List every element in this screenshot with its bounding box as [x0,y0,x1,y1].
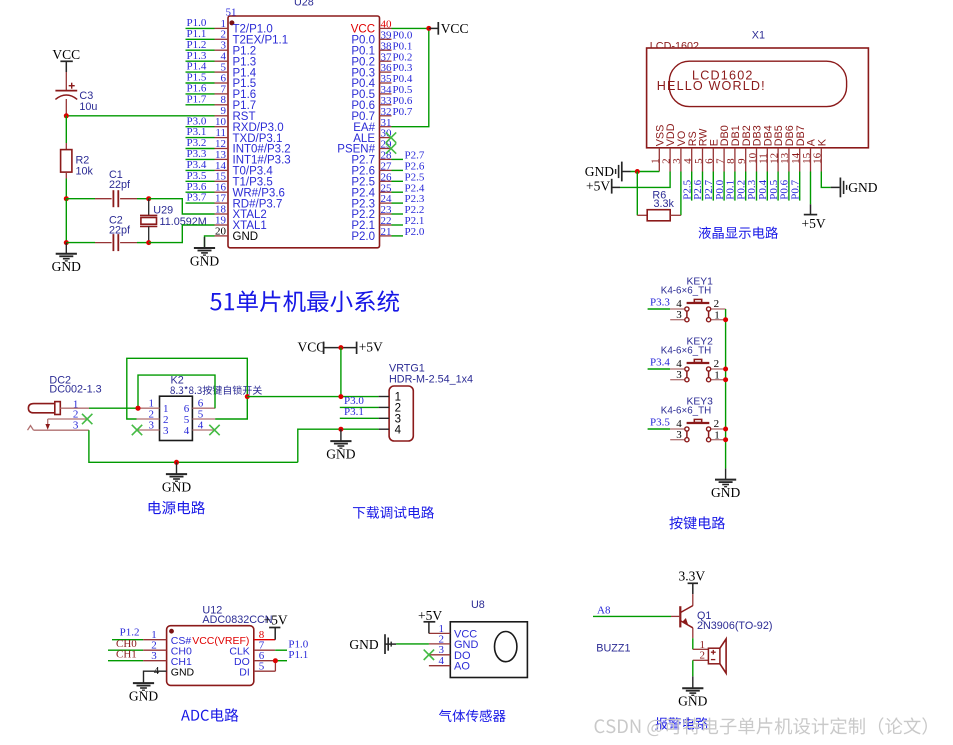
ground [678,676,707,708]
svg-text:AO: AO [454,661,470,673]
svg-text:A8: A8 [597,604,611,616]
junction [146,196,151,201]
svg-text:GND: GND [848,180,877,195]
wire [137,242,149,244]
junction [338,394,343,399]
svg-text:K4-6×6_TH: K4-6×6_TH [661,405,711,416]
svg-text:GND: GND [711,485,740,500]
svg-text:16: 16 [812,152,824,164]
svg-text:51: 51 [226,7,237,19]
wire [149,199,215,214]
junction [426,26,431,31]
wire [186,180,215,182]
value label R6 3.3k [652,190,674,211]
section title key circuit [669,516,725,529]
power flag VCC [298,340,341,355]
svg-text:2: 2 [714,358,720,370]
IC U12 ADC0832 [143,626,275,686]
ground [349,634,396,654]
wire [186,126,215,128]
wire [723,172,725,201]
wire [712,172,714,201]
wire [186,158,215,160]
no-connect X [82,414,92,424]
ground [52,243,81,275]
wire [137,198,149,200]
svg-text:3.3V: 3.3V [679,568,706,583]
wire [65,179,67,199]
svg-text:10u: 10u [79,101,97,113]
wire [149,225,215,243]
junction [174,460,179,465]
power flag VCC [429,21,469,36]
svg-text:GND: GND [162,479,191,494]
svg-text:K2: K2 [171,374,184,386]
svg-text:GND: GND [190,253,219,268]
svg-text:3: 3 [151,650,157,662]
capacitor C3 [55,72,77,116]
section title download debug circuit [353,506,434,519]
wire [648,368,671,370]
svg-text:2: 2 [714,298,720,310]
wire [108,660,143,662]
power flag +5V [418,608,442,633]
wire [691,172,693,201]
svg-text:U8: U8 [471,599,485,611]
svg-text:P1.7: P1.7 [187,93,207,105]
wire [89,430,298,462]
wire [186,137,215,139]
power flag +5V [341,340,383,355]
watermark [595,717,927,736]
ground [190,237,219,268]
svg-text:2: 2 [73,408,79,420]
svg-text:3: 3 [163,425,169,437]
svg-text:GND: GND [326,446,355,461]
svg-text:4: 4 [439,655,445,667]
wire [392,191,404,193]
wire [108,649,143,651]
wire [734,172,736,201]
wire [65,116,67,143]
svg-text:BUZZ1: BUZZ1 [596,642,630,654]
pushbutton KEY3 [670,418,725,442]
junction [136,406,141,411]
wire [821,172,830,188]
wire [630,171,659,173]
junction [273,658,278,663]
value label C3 10u [79,90,97,113]
wire [340,348,342,397]
svg-text:4: 4 [184,425,190,437]
power flag +5V [264,612,288,639]
svg-text:1: 1 [714,430,720,442]
pushbutton KEY2 [670,358,725,382]
svg-text:22pf: 22pf [109,225,131,237]
title 51 MCU minimal system [210,290,399,312]
svg-text:3: 3 [149,419,155,431]
wire key bus to ground [725,309,727,468]
transistor Q1 PNP [671,594,693,638]
svg-text:HELLO WORLD!: HELLO WORLD! [657,79,766,93]
svg-text:10k: 10k [76,166,94,178]
power flag VCC [52,47,80,72]
wire K2 pin1-pin6 loop [138,375,215,408]
svg-text:P3.7: P3.7 [187,192,207,204]
capacitor C2 [95,234,137,251]
wire [799,172,801,201]
svg-text:1: 1 [714,310,720,322]
junction [64,113,69,118]
crystal U29 [140,199,157,243]
svg-text:VCC: VCC [441,21,469,36]
wire [186,38,215,40]
junction [723,427,728,432]
junction [723,377,728,382]
svg-text:2N3906(TO-92): 2N3906(TO-92) [697,620,772,632]
header VRTG1 [379,386,414,441]
ground [133,682,154,684]
junction [64,240,69,245]
wire VCC rail [247,396,378,398]
svg-text:P3.1: P3.1 [344,406,364,418]
ground [831,178,878,198]
wire [692,660,694,676]
wire [186,93,215,95]
section title ADC circuit [181,708,238,722]
wire [648,428,671,430]
svg-text:+5V: +5V [586,179,610,194]
latching switch K2 [137,396,216,440]
svg-text:2: 2 [714,418,720,430]
ground [162,462,191,494]
wire [340,406,379,408]
svg-text:GND: GND [349,637,378,652]
wire [186,148,215,150]
resistor R6 [637,210,681,221]
wire [186,27,215,29]
ground [326,429,355,461]
wire [620,172,670,188]
svg-text:VCC: VCC [52,47,80,62]
wire [777,172,779,201]
value label C2 22pf [109,215,131,237]
svg-text:GND: GND [171,666,195,678]
svg-text:11.0592M: 11.0592M [160,216,207,228]
gas sensor module U8 [429,622,527,678]
svg-text:ADC0832CCN: ADC0832CCN [202,614,272,626]
DC barrel jack DC2 [28,398,90,431]
junction [635,169,640,174]
wire [392,224,404,226]
wire [392,213,404,215]
svg-text:P3.4: P3.4 [650,356,670,368]
power flag +5V [586,179,620,194]
wire [692,638,694,649]
wire [810,172,812,205]
svg-text:P1.2: P1.2 [120,627,140,639]
power flag 3.3V [679,568,706,594]
wire [66,242,95,244]
wire ADC GND [144,671,167,683]
svg-text:K: K [816,138,828,146]
svg-text:HDR-M-2.54_1x4: HDR-M-2.54_1x4 [389,374,473,386]
svg-text:+5V: +5V [264,612,288,627]
buzzer BUZZ1 [693,639,726,673]
svg-text:K4-6×6_TH: K4-6×6_TH [661,345,711,356]
svg-text:P0.7: P0.7 [789,179,801,199]
capacitor C1 [95,190,137,207]
svg-text:DI: DI [239,666,250,678]
wire [275,649,287,651]
svg-text:CH1: CH1 [116,649,137,661]
wire [648,308,671,310]
wire [89,407,138,409]
svg-text:4: 4 [198,419,204,431]
svg-text:+5V: +5V [802,216,826,231]
wire [392,202,404,204]
wire [745,172,747,201]
wire RST [66,115,214,117]
junction [723,317,728,322]
wire [186,104,215,106]
section title gas sensor [439,710,506,722]
wire [112,639,143,641]
svg-text:P0.7: P0.7 [393,106,413,118]
ground [585,162,631,182]
svg-text:X1: X1 [752,29,765,41]
wire [186,71,215,73]
power flag +5V [802,204,826,231]
no-connect X on PSEN# [386,143,396,153]
svg-text:K4-6×6_TH: K4-6×6_TH [661,285,711,296]
wire K2 pin2 loop [127,358,248,419]
wire [186,82,215,84]
svg-text:DC002-1.3: DC002-1.3 [49,384,101,396]
wire [788,172,790,201]
wire [186,49,215,51]
wire [186,191,215,193]
wire [680,172,682,216]
wire [205,236,215,248]
wire [756,172,758,201]
junction [136,406,141,411]
junction [146,240,151,245]
svg-text:+5V: +5V [359,340,383,355]
wire [340,417,379,419]
wire [392,235,404,237]
wire [392,180,404,182]
LCD module X1 LCD-1602 [647,48,869,172]
wire [186,202,215,204]
svg-text:GND: GND [585,164,614,179]
IC U28 8051 MCU [215,0,393,248]
wire [593,615,671,617]
wire [186,169,215,171]
wire [766,172,768,201]
svg-text:4: 4 [395,424,402,436]
svg-text:U29: U29 [153,204,173,216]
value label C1 22pf [109,169,131,191]
svg-text:P3.3: P3.3 [650,296,670,308]
section title LCD display circuit [699,227,778,239]
value label R2 10k [76,155,94,178]
section title power circuit [149,501,205,514]
svg-text:U28: U28 [294,0,314,9]
svg-text:GND: GND [52,259,81,274]
value label U29 11.0592M [153,204,206,228]
resistor R2 [61,143,72,179]
no-connect X [424,650,434,660]
svg-text:3.3k: 3.3k [654,198,675,210]
value label 8.3*8.3 self-locking switch [170,385,262,394]
wire VCC to pin40 [392,27,429,29]
svg-text:+5V: +5V [418,608,442,623]
ground [711,468,740,500]
wire EA# to VCC [392,28,429,126]
wire [66,198,95,200]
wire [186,60,215,62]
wire [392,158,404,160]
junction [338,345,343,350]
svg-text:GND: GND [233,231,259,243]
no-connect X [132,425,142,435]
wire [396,643,429,645]
svg-text:VCC: VCC [298,340,326,355]
svg-text:3: 3 [73,420,79,432]
junction [245,394,250,399]
svg-text:P2.0: P2.0 [405,226,425,238]
junction [338,427,343,432]
wire [65,199,67,243]
svg-text:P3.5: P3.5 [650,416,670,428]
svg-text:20: 20 [215,225,227,237]
pushbutton KEY1 [670,298,725,322]
junction [64,196,69,201]
svg-text:3: 3 [676,369,682,381]
no-connect X [209,425,219,435]
svg-text:GND: GND [129,688,158,703]
no-connect X on ALE [386,132,396,142]
svg-text:GND: GND [678,694,707,709]
wire [298,429,379,462]
section title alarm circuit [655,717,708,729]
wire [702,172,704,201]
wire [392,169,404,171]
svg-text:22pf: 22pf [109,179,131,191]
svg-text:2: 2 [700,650,706,662]
svg-text:P2.0: P2.0 [351,231,375,243]
svg-text:3: 3 [676,429,682,441]
wire [275,660,287,662]
svg-text:P1.1: P1.1 [288,649,308,661]
wire [636,172,638,216]
junction [723,367,728,372]
junction [723,437,728,442]
svg-text:21: 21 [381,226,392,238]
svg-text:3: 3 [676,309,682,321]
svg-text:1: 1 [714,370,720,382]
